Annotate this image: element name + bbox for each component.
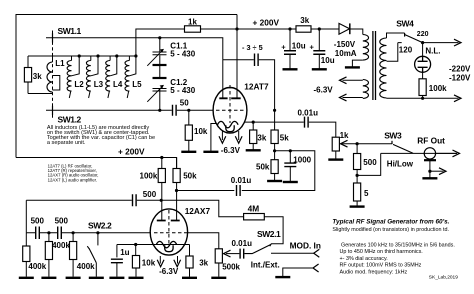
capacitor -3÷5 trimmer	[255, 53, 259, 65]
svg-text:L5: L5	[132, 80, 142, 89]
wire Low	[357, 153, 381, 175]
wire B+ rail y29	[136, 29, 339, 56]
capacitor 0.01u RF	[305, 117, 309, 128]
svg-text:50k: 50k	[183, 171, 197, 180]
ground 10k grid	[181, 151, 196, 153]
arrow pot wiper	[224, 250, 231, 257]
resistor 3k	[24, 68, 31, 83]
svg-text:1k: 1k	[188, 17, 197, 26]
svg-text:0.01u: 0.01u	[231, 176, 252, 185]
svg-text:L2: L2	[74, 80, 84, 89]
wire cathode out	[244, 122, 336, 137]
wire pot wiper	[226, 253, 239, 255]
svg-text:L3: L3	[94, 80, 104, 89]
switch SW1 shaft dashed	[52, 31, 54, 119]
svg-text:SW2.1: SW2.1	[257, 229, 281, 239]
svg-text:100k: 100k	[140, 171, 158, 180]
tube 12AT7 cathode	[218, 121, 239, 127]
svg-text:L1: L1	[55, 59, 65, 68]
resistor 3k AX7	[189, 245, 191, 257]
wire 1k wiper	[341, 143, 357, 145]
svg-text:Hi/Low: Hi/Low	[387, 159, 414, 168]
svg-text:10mA: 10mA	[335, 49, 357, 58]
transformer heater winding	[363, 80, 369, 99]
switch SW2.2 contact	[87, 246, 89, 249]
inductor L5	[128, 56, 130, 61]
ground MOD shield	[275, 276, 290, 278]
switch SW4 blade	[405, 35, 423, 43]
wire +200V top line and left rail	[16, 15, 237, 158]
resistor 4M	[244, 214, 265, 220]
tube 12AX7 heater	[165, 245, 173, 251]
svg-text:120: 120	[399, 46, 413, 55]
node SW4 220	[421, 41, 424, 44]
ground 1000	[283, 181, 298, 183]
wire fb 500 line	[26, 200, 243, 216]
wire MOD In	[271, 252, 314, 254]
svg-text:+- 3% dial accuracy.: +- 3% dial accuracy.	[340, 256, 388, 262]
wire audio grid line	[26, 232, 151, 234]
svg-text:10k: 10k	[142, 258, 156, 267]
resistor 50k bias	[274, 151, 276, 160]
resistor 5k	[274, 110, 276, 130]
tube 12AT7 axis dashed	[229, 85, 231, 123]
wire SW2.2 down	[95, 263, 97, 277]
ground primary	[345, 66, 360, 68]
svg-text:4M: 4M	[248, 203, 260, 213]
node C1 bottom	[158, 109, 161, 112]
svg-text:500: 500	[55, 217, 69, 226]
resistor 50k AX7	[173, 169, 180, 183]
capacitor 500 a	[36, 227, 40, 240]
svg-text:- 3 ÷ 5: - 3 ÷ 5	[242, 43, 263, 52]
switch SW1.1 line	[46, 38, 223, 60]
arrow 1k wiper	[341, 140, 348, 147]
arrow heater bottom	[340, 94, 347, 101]
svg-text:400k: 400k	[28, 262, 46, 271]
svg-text:Generates 100 kHz to 35/150MHz: Generates 100 kHz to 35/150MHz in 5/6 ba…	[341, 243, 455, 249]
arrow bottom out	[454, 95, 461, 102]
svg-text:L4: L4	[113, 80, 123, 89]
wire AX7 grid to pot	[184, 233, 219, 249]
svg-text:5 - 430: 5 - 430	[170, 86, 195, 95]
tube 12AX7 envelope	[150, 209, 187, 255]
ground SW2.2	[89, 277, 104, 279]
connector MOD shield	[313, 264, 319, 272]
svg-text:500: 500	[143, 190, 157, 199]
svg-text:Up to 450 MHz on third harmoni: Up to 450 MHz on third harmonics.	[340, 249, 423, 255]
svg-text:50: 50	[180, 99, 189, 108]
wire AX7 cathode bus	[117, 244, 190, 246]
node 100k bottom	[160, 199, 163, 202]
ground 10u A	[283, 68, 298, 70]
resistor 100k AX7	[158, 169, 165, 183]
svg-text:10u: 10u	[292, 42, 306, 51]
node C1 top	[158, 36, 161, 39]
resistor 500k pot	[215, 249, 222, 263]
svg-text:+: +	[281, 42, 286, 51]
svg-text:+: +	[310, 42, 315, 51]
wire 4M to SW2.1	[264, 217, 283, 247]
wire C1 stem	[159, 38, 161, 111]
svg-text:SW1.1: SW1.1	[58, 26, 82, 36]
ground 50k bias	[267, 180, 282, 182]
svg-text:12AX7: 12AX7	[185, 206, 211, 216]
tube 12AT7 envelope	[213, 88, 247, 134]
connector MOD In	[314, 249, 320, 257]
node 1000	[289, 149, 292, 152]
svg-text:0.01u: 0.01u	[232, 239, 253, 248]
wire 12AT7 cathode left	[211, 124, 217, 152]
wire RF shield arrow line	[430, 170, 444, 172]
svg-text:+ 200V: + 200V	[253, 18, 280, 28]
ground 5 att	[350, 205, 365, 207]
svg-text:Audio mod. frequency: 1kHz: Audio mod. frequency: 1kHz	[340, 269, 408, 275]
node RF shield	[428, 170, 431, 173]
inductor L1	[52, 56, 54, 62]
svg-text:3k: 3k	[257, 134, 266, 143]
arrow 220 out	[454, 39, 461, 46]
wire trimmer	[223, 60, 275, 111]
arrow 12AT7 heater	[219, 136, 226, 143]
resistor 400k R2	[48, 233, 50, 242]
svg-text:SW2.2: SW2.2	[88, 220, 112, 230]
wire heater taps	[343, 80, 363, 97]
resistor 100k lamp	[422, 72, 424, 79]
tube 12AT7 heater	[226, 125, 234, 131]
svg-text:SW1.2: SW1.2	[58, 114, 82, 124]
wire left fb drop	[25, 200, 27, 233]
connector RF out circle	[424, 148, 435, 159]
svg-text:500: 500	[31, 217, 45, 226]
capacitor 500 fb	[133, 194, 137, 206]
node 10k grid	[187, 109, 190, 112]
ground 3k AX7	[182, 277, 197, 279]
resistor 10k AX7	[135, 245, 137, 256]
svg-text:1k: 1k	[340, 131, 349, 140]
svg-text:Slightly modified (on transist: Slightly modified (on transistors) in pr…	[332, 227, 449, 233]
wire diode to primary	[350, 29, 363, 35]
capacitor 10u B	[318, 29, 320, 50]
ground 500k pot	[211, 277, 226, 279]
svg-text:10k: 10k	[194, 127, 208, 136]
svg-text:SW4: SW4	[396, 19, 414, 29]
tube 12AT7 grid dashed	[216, 109, 245, 111]
tube 12AX7 grid dashed	[154, 232, 184, 234]
svg-text:Int./Ext.: Int./Ext.	[251, 260, 280, 269]
switch SW3 blade	[393, 144, 413, 153]
svg-text:3k: 3k	[300, 16, 309, 25]
svg-text:a separate unit.: a separate unit.	[47, 140, 86, 146]
inductor L3	[90, 56, 92, 61]
svg-text:12AT7: 12AT7	[244, 82, 269, 92]
resistor 1k pot	[332, 137, 339, 151]
switch SW3 tick	[391, 141, 393, 144]
wire Hi	[357, 143, 392, 145]
svg-text:0.01u: 0.01u	[298, 109, 319, 118]
svg-text:SW3: SW3	[384, 131, 402, 141]
svg-text:1u: 1u	[120, 248, 129, 257]
arrow RF out	[453, 150, 460, 157]
capacitor 500 b	[58, 227, 62, 240]
arrow RF shield	[439, 168, 446, 175]
node grid right	[273, 109, 276, 112]
wire MOD shield	[283, 268, 313, 276]
wire coil bus	[28, 55, 136, 57]
resistor 5 att	[356, 175, 358, 183]
node 5k bottom	[273, 149, 276, 152]
ground 400k R2	[41, 277, 56, 279]
resistor 400k R3	[72, 233, 74, 242]
svg-text:5 - 430: 5 - 430	[170, 50, 195, 59]
arrow AX7 heater	[157, 260, 164, 267]
svg-text:5: 5	[364, 189, 369, 198]
node 10k cathode	[134, 243, 137, 246]
resistor 3k AT7	[252, 122, 254, 130]
switch SW1.1 tick	[52, 33, 54, 42]
wire RF out	[381, 152, 457, 154]
node 500 bottom	[356, 174, 359, 177]
capacitor 10u A	[289, 29, 291, 50]
wire primary bottom	[352, 60, 362, 67]
wire right plate drop	[236, 15, 238, 99]
diode D1	[339, 23, 350, 34]
svg-text:-6.3V: -6.3V	[314, 85, 334, 94]
svg-text:500k: 500k	[222, 262, 240, 271]
wire left plate drop	[222, 60, 224, 99]
transformer primary HV	[363, 35, 369, 61]
svg-text:SK_Lab,2019: SK_Lab,2019	[429, 274, 458, 280]
svg-text:500: 500	[363, 158, 377, 167]
capacitor 1000	[289, 151, 291, 163]
switch SW2.2 stub	[97, 233, 99, 246]
node secondary bottom	[421, 97, 424, 100]
tube 12AX7 axis dashed	[168, 210, 170, 245]
svg-text:1000: 1000	[293, 155, 311, 164]
tube 12AT7 plates	[219, 97, 240, 99]
svg-text:RF output: 100mV RMS to 35MHz: RF output: 100mV RMS to 35MHz	[340, 263, 422, 269]
node 100k top	[160, 156, 163, 159]
capacitor C1.2	[153, 77, 167, 79]
ground 400k R3	[66, 277, 81, 279]
wire SW1.2 grid line	[46, 109, 214, 111]
wire 12AT7 heater leads	[222, 131, 238, 140]
svg-text:-6.3V: -6.3V	[221, 146, 241, 155]
ground 12AT7 cathode	[203, 151, 218, 153]
ground RF out	[422, 177, 437, 179]
tube 12AX7 cathode	[156, 241, 177, 247]
ground 1u	[109, 277, 124, 279]
capacitor 1u	[116, 245, 118, 258]
capacitor 50	[173, 105, 177, 116]
wire 120 tap	[387, 43, 402, 62]
node 50k bottom	[175, 189, 178, 192]
switch SW2.2 blade	[89, 249, 96, 263]
svg-text:50k: 50k	[256, 162, 270, 171]
svg-text:N.L.: N.L.	[425, 47, 440, 56]
node 3k	[252, 121, 255, 124]
wire 220 out	[423, 42, 459, 44]
wire RF shield	[429, 159, 431, 177]
resistor 1k	[185, 26, 201, 32]
capacitor C1.1	[153, 52, 167, 55]
transformer secondary	[380, 38, 387, 98]
inductor L2	[71, 56, 73, 61]
svg-text:3k: 3k	[33, 72, 42, 81]
ground 10u B	[312, 68, 327, 70]
resistor 500 att	[356, 144, 358, 154]
capacitor 0.01u mod	[240, 249, 244, 259]
svg-text:400k: 400k	[52, 241, 70, 250]
svg-text:-150V: -150V	[334, 40, 356, 49]
lamp N.L	[415, 56, 431, 72]
svg-text:+ 200V: + 200V	[118, 146, 145, 156]
svg-text:10u: 10u	[321, 56, 335, 65]
node 1k wiper	[356, 142, 359, 145]
wire bias loop	[242, 151, 315, 191]
ground 1k pot	[328, 158, 343, 160]
wire 3k loop	[28, 56, 53, 94]
wire AX7 heater leads	[160, 256, 177, 264]
svg-text:12AX7 (L) audio amplifier.: 12AX7 (L) audio amplifier.	[48, 177, 97, 182]
svg-text:220: 220	[417, 31, 429, 38]
wire lamp top	[422, 43, 424, 57]
node B+ junctions	[235, 27, 238, 30]
inductor L4	[109, 56, 111, 61]
ground 10k AX7	[129, 277, 144, 279]
tube 12AX7 plates	[157, 220, 180, 222]
svg-text:RF Out: RF Out	[417, 135, 445, 145]
svg-text:-6.3V: -6.3V	[159, 267, 179, 276]
svg-text:Typical RF Signal Generator fr: Typical RF Signal Generator from 60's.	[332, 218, 449, 225]
wire fb left	[177, 190, 235, 192]
switch SW2.1 blade	[244, 244, 271, 253]
transformer core	[373, 31, 376, 100]
svg-text:5k: 5k	[280, 134, 289, 143]
node audio dots	[47, 231, 50, 234]
resistor 10k grid	[188, 110, 190, 125]
svg-text:400k: 400k	[77, 262, 95, 271]
ground 3k AT7	[246, 149, 261, 151]
svg-text:-220V: -220V	[449, 64, 471, 73]
wire +200V bottom rail	[16, 158, 177, 168]
wire secondary bottom	[387, 97, 459, 99]
arrow heater top	[340, 77, 347, 84]
svg-text:MOD. In: MOD. In	[290, 241, 321, 251]
resistor 3k rail	[296, 26, 311, 32]
capacitor 0.01u fb	[237, 185, 241, 196]
svg-text:100k: 100k	[429, 84, 447, 93]
ground 400k R1	[19, 277, 34, 279]
wire secondary top tap	[387, 33, 405, 38]
resistor 400k R1	[25, 233, 27, 246]
node coil bus dots	[78, 54, 81, 57]
svg-text:3k: 3k	[199, 258, 208, 267]
svg-text:-120V: -120V	[449, 74, 471, 83]
switch SW1.2 tick	[52, 106, 54, 115]
inductor L1 tap square	[53, 76, 60, 91]
switch SW4 contact tick	[404, 33, 406, 37]
